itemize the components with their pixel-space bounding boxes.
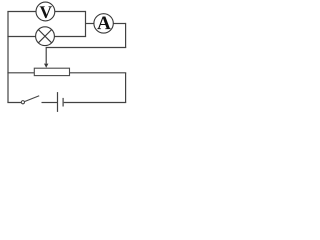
wire right lower vertical (rheostat to battery row) xyxy=(125,73,127,103)
lamp L (circle with X) xyxy=(36,27,55,46)
wire bottom row mid (switch to battery) xyxy=(42,102,58,104)
battery cell xyxy=(58,92,64,112)
wire ammeter branch left xyxy=(86,23,95,25)
wire bottom row right (battery to right vertical) xyxy=(64,102,126,104)
wire lamp row right xyxy=(54,36,86,38)
wire top row right (voltmeter to corner) xyxy=(55,11,86,13)
wire rheostat left xyxy=(7,72,34,74)
wire wiper vertical xyxy=(45,47,47,64)
wire vertical x85 (V row down to lamp row) xyxy=(85,11,87,37)
wire rheostat right xyxy=(69,72,126,74)
switch S xyxy=(21,96,39,104)
rheostat R (slide resistor box) xyxy=(34,68,69,75)
wire ammeter branch right xyxy=(113,23,125,25)
rheostat wiper arrowhead xyxy=(44,64,48,68)
ammeter A xyxy=(94,14,113,33)
wire wiper horizontal xyxy=(46,47,126,49)
voltmeter V xyxy=(36,2,55,21)
wire top row left (to voltmeter) xyxy=(7,11,36,13)
wire bottom row left (to switch) xyxy=(7,101,21,104)
wire left vertical (node from battery to V/lamp/rheostat) xyxy=(7,12,9,103)
wire lamp row left xyxy=(7,36,35,38)
wire right upper vertical (ammeter to wiper line) xyxy=(125,23,127,48)
